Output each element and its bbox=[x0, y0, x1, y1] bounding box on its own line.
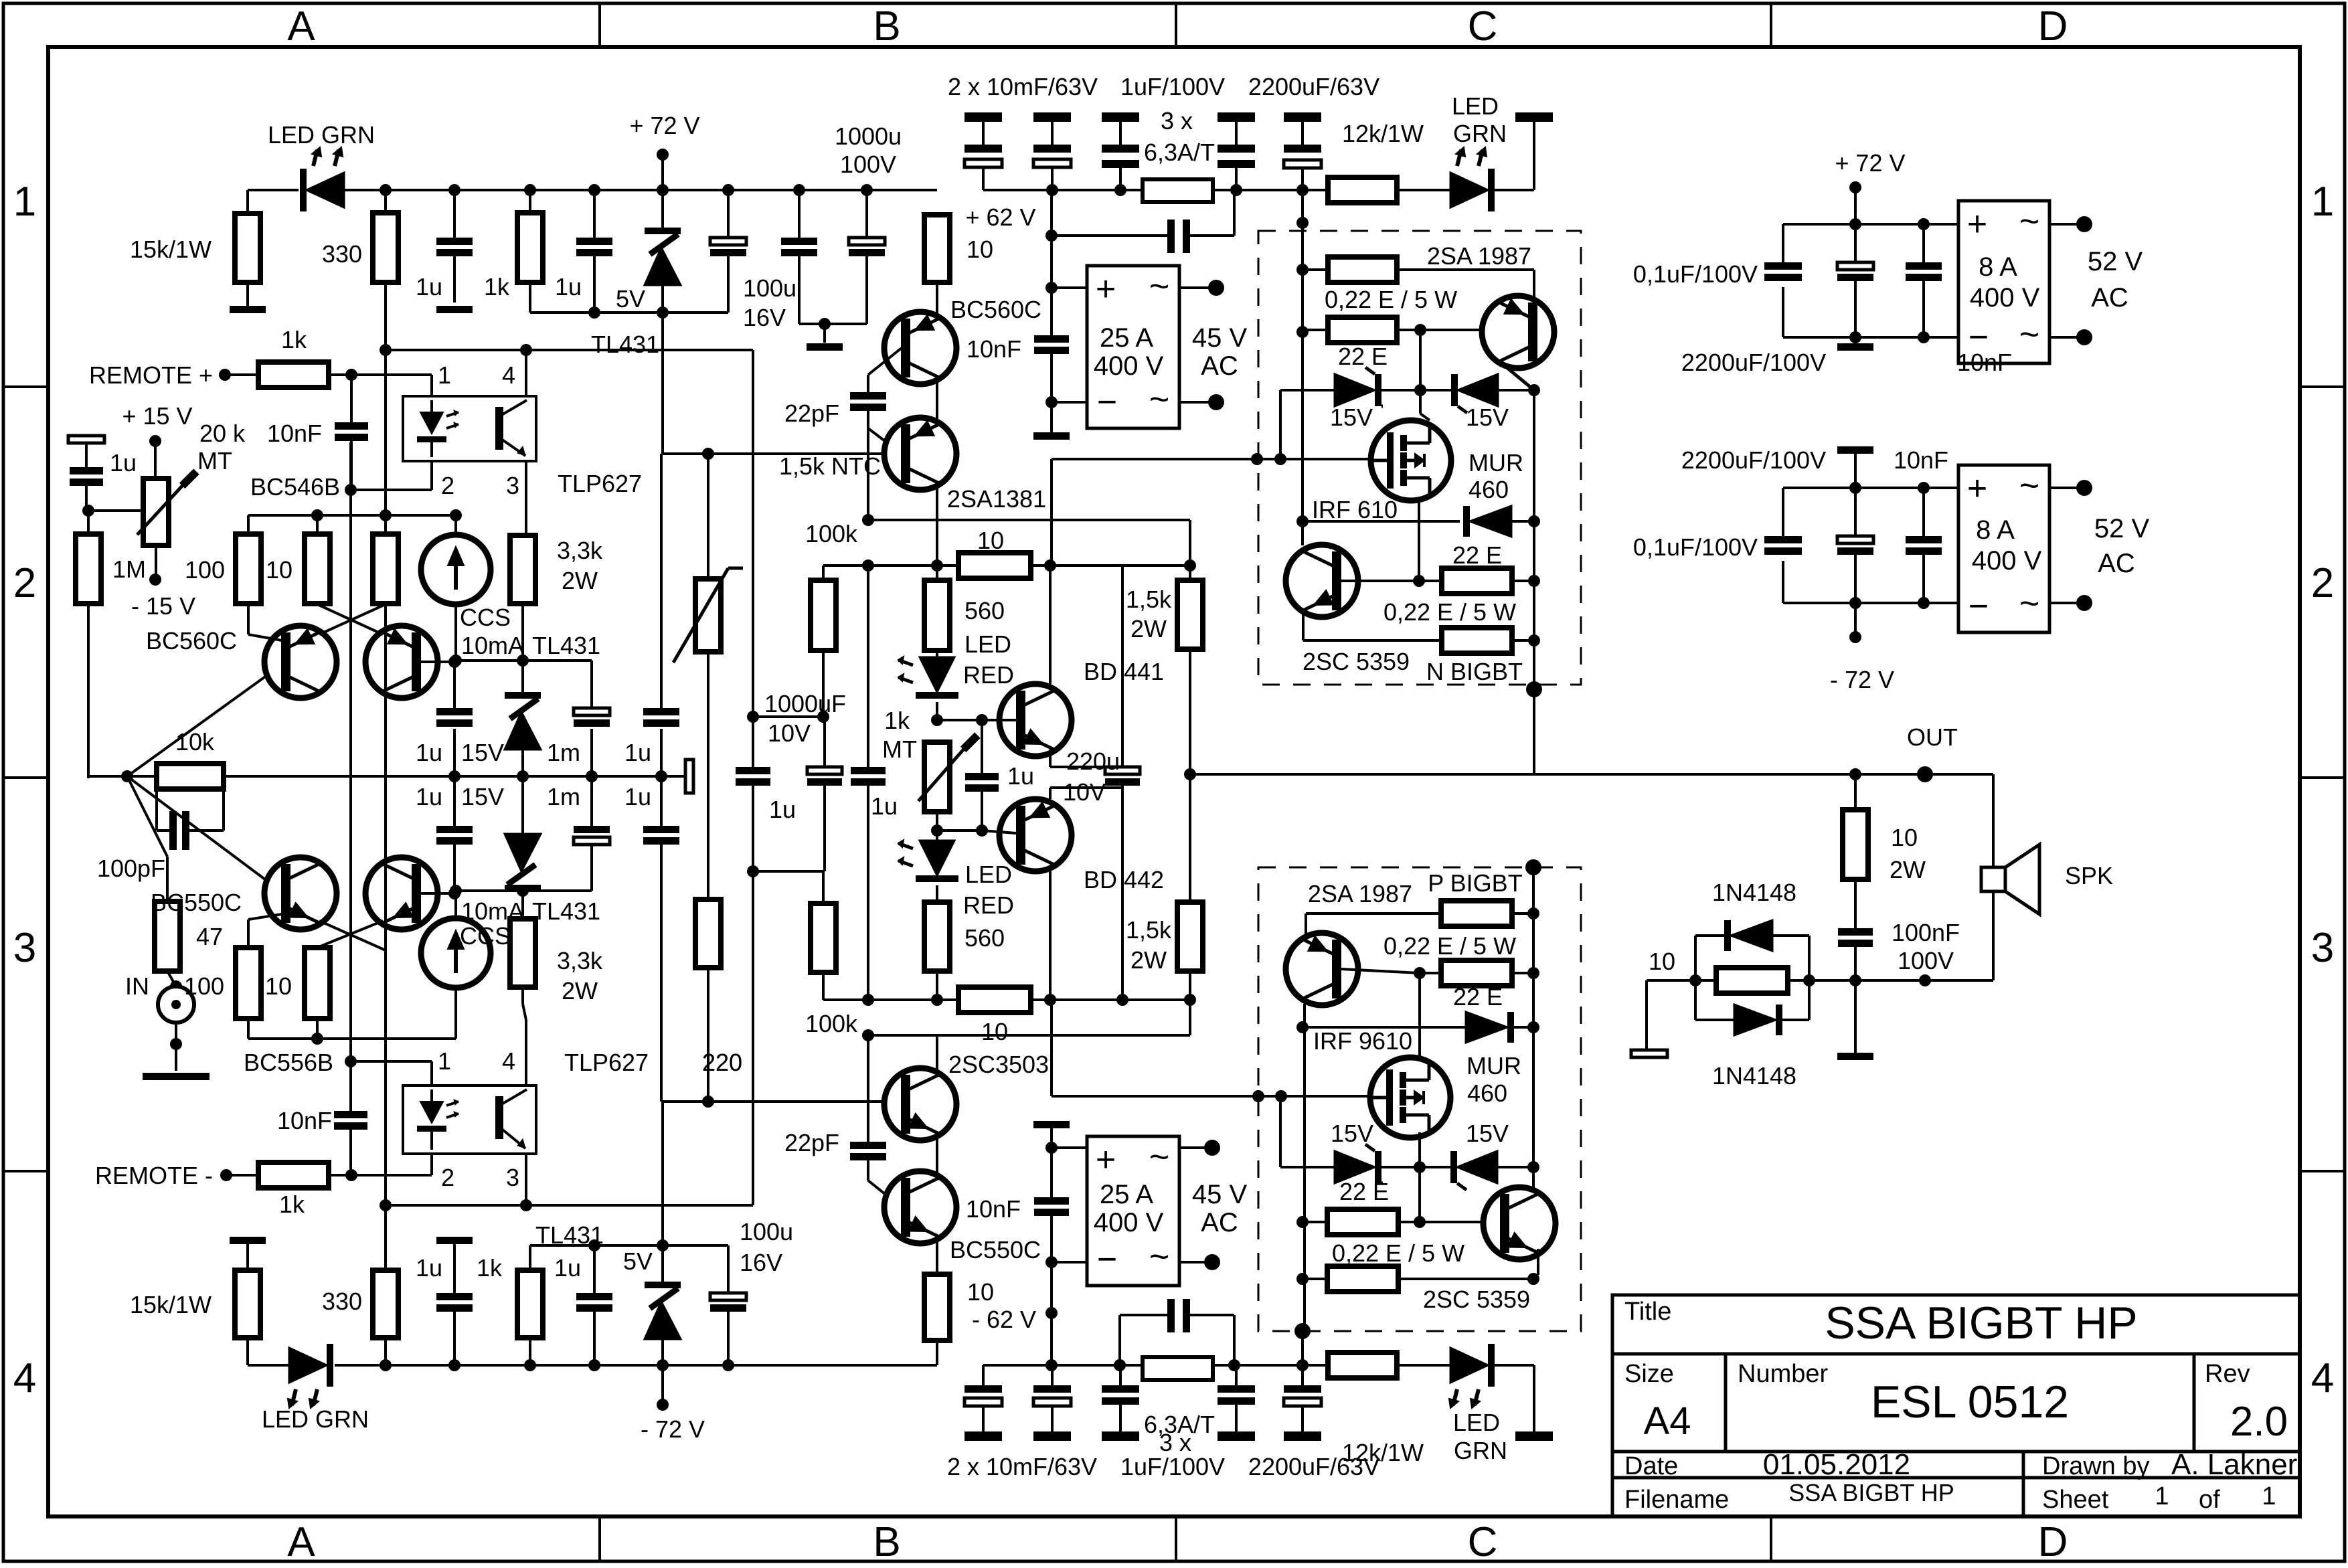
resistor 0,22E top2 bbox=[1303, 329, 1328, 331]
cap 100pF bbox=[155, 776, 158, 831]
resistor 10 out body bbox=[1716, 968, 1788, 993]
svg-text:12k/1W: 12k/1W bbox=[1342, 1439, 1424, 1466]
node -72V row4 bbox=[657, 1399, 669, 1411]
resistor 0,22E P3 bbox=[1296, 1273, 1309, 1285]
cap 10nF plates bbox=[335, 422, 368, 430]
svg-text:1u: 1u bbox=[555, 273, 582, 300]
svg-text:2 x 10mF/63V: 2 x 10mF/63V bbox=[947, 1453, 1097, 1480]
svg-text:GRN: GRN bbox=[1454, 1437, 1507, 1464]
fuse bottom bbox=[1143, 1357, 1213, 1380]
cap 2200uF/63V bottom bbox=[1301, 1365, 1304, 1385]
svg-text:A: A bbox=[287, 3, 315, 50]
wire 330 bottom line bbox=[380, 1199, 392, 1211]
cap 100u 16V bottom bbox=[710, 1293, 746, 1300]
svg-text:15V: 15V bbox=[1330, 404, 1373, 431]
svg-text:~: ~ bbox=[1149, 1138, 1169, 1177]
svg-text:LED: LED bbox=[1453, 1409, 1500, 1436]
CCS circle top bbox=[421, 535, 491, 604]
svg-text:RED: RED bbox=[963, 661, 1014, 689]
svg-text:1N4148: 1N4148 bbox=[1712, 879, 1796, 906]
cap 1u right top bbox=[660, 454, 663, 708]
resistor 15k/1W body bbox=[235, 213, 260, 282]
cap 10nF bottom plates bbox=[1034, 1197, 1069, 1205]
svg-text:400 V: 400 V bbox=[1970, 283, 2040, 313]
svg-text:10: 10 bbox=[977, 527, 1004, 554]
cap 1m polarized bbox=[574, 708, 610, 715]
svg-text:IN: IN bbox=[125, 972, 149, 1000]
cap 22pF plates bottom bbox=[850, 1142, 886, 1149]
svg-text:10: 10 bbox=[265, 972, 292, 1000]
cap 220u/10V bbox=[1121, 565, 1124, 767]
svg-text:15V: 15V bbox=[1466, 1120, 1509, 1147]
cap 1uF bypass under fuse bbox=[1045, 230, 1058, 242]
svg-text:A4: A4 bbox=[1644, 1399, 1691, 1443]
resistor 10 top bbox=[316, 515, 319, 534]
svg-text:100u: 100u bbox=[740, 1218, 793, 1245]
svg-text:16V: 16V bbox=[743, 304, 786, 331]
svg-text:1N4148: 1N4148 bbox=[1712, 1062, 1796, 1090]
zener 15V left N bbox=[1280, 389, 1335, 391]
resistor 100k top bbox=[822, 565, 825, 580]
diode 1N4148 top bbox=[1731, 920, 1772, 951]
svg-text:+ 72 V: + 72 V bbox=[629, 112, 699, 139]
svg-text:- 62 V: - 62 V bbox=[972, 1306, 1036, 1333]
zone divider ticks left bbox=[3, 385, 48, 388]
svg-text:REMOTE -: REMOTE - bbox=[95, 1162, 213, 1189]
wire VAS base bottom bbox=[661, 1100, 901, 1103]
cap 1u plates bbox=[576, 238, 612, 245]
svg-text:~: ~ bbox=[1149, 267, 1169, 306]
svg-text:15V: 15V bbox=[1466, 404, 1509, 431]
svg-text:100: 100 bbox=[184, 972, 224, 1000]
ground bar bridge bbox=[1033, 432, 1070, 440]
transistor 2SC3503 bbox=[884, 1068, 956, 1140]
svg-text:400 V: 400 V bbox=[1094, 351, 1164, 381]
svg-text:47: 47 bbox=[196, 923, 223, 950]
cap 1uF bar b bbox=[1218, 112, 1255, 122]
capacitor 1u second bbox=[593, 190, 596, 238]
wire line777 right bbox=[868, 519, 1190, 521]
resistor 15k/1W bbox=[246, 190, 249, 213]
terminal bar bottom bbox=[1515, 1431, 1553, 1441]
diode 1N4148 bottom bbox=[1695, 1019, 1734, 1021]
svg-text:10nF: 10nF bbox=[967, 335, 1021, 363]
svg-text:SSA BIGBT HP: SSA BIGBT HP bbox=[1825, 1298, 2137, 1348]
svg-text:BC556B: BC556B bbox=[244, 1049, 333, 1076]
ground bar IN bbox=[143, 1073, 209, 1080]
svg-text:10nF: 10nF bbox=[267, 420, 322, 447]
cap 10nF b2 plates bbox=[1906, 536, 1942, 543]
svg-text:C: C bbox=[1468, 1519, 1498, 1565]
svg-text:1uF/100V: 1uF/100V bbox=[1120, 73, 1225, 100]
cap 100nF plates bbox=[1838, 928, 1873, 936]
svg-text:10nF: 10nF bbox=[966, 1195, 1021, 1223]
transistor BD442 bbox=[999, 799, 1072, 871]
svg-text:100nF: 100nF bbox=[1892, 919, 1960, 946]
cap 1uF bar bbox=[1102, 112, 1139, 122]
diode 1N4148 bottom bbox=[1734, 1005, 1776, 1035]
zone divider ticks top bbox=[598, 3, 601, 47]
resistor 12k/1W bottom body bbox=[1328, 1353, 1397, 1378]
node +72V right bbox=[1849, 181, 1861, 193]
svg-text:10: 10 bbox=[266, 556, 292, 584]
wire emitter cross top bbox=[319, 604, 386, 634]
cap 220u 10V bbox=[1105, 767, 1140, 774]
svg-text:~: ~ bbox=[1149, 380, 1169, 419]
svg-text:22 E: 22 E bbox=[1339, 1178, 1389, 1205]
optocoupler TLP627 box bbox=[403, 396, 536, 461]
resistor 10 h body bbox=[958, 553, 1031, 578]
svg-text:16V: 16V bbox=[740, 1249, 782, 1276]
svg-text:Title: Title bbox=[1624, 1298, 1671, 1326]
resistor 330 bbox=[384, 190, 387, 213]
dashed box P BIGBT bbox=[1258, 867, 1581, 1331]
wire line 770 bbox=[248, 514, 456, 517]
pot 1k MT body bbox=[924, 742, 950, 812]
transistor BC550C input pair left bbox=[264, 857, 337, 930]
svg-text:1: 1 bbox=[438, 361, 451, 389]
wire 330 junction line bbox=[380, 344, 392, 356]
svg-text:100pF: 100pF bbox=[97, 855, 165, 882]
svg-text:LED GRN: LED GRN bbox=[262, 1405, 369, 1433]
svg-text:3 x: 3 x bbox=[1161, 107, 1193, 135]
cap 10nF bottom input bbox=[349, 1061, 352, 1111]
svg-text:1u: 1u bbox=[416, 273, 442, 300]
svg-text:~: ~ bbox=[2019, 202, 2039, 241]
svg-text:2: 2 bbox=[13, 560, 36, 606]
svg-text:IRF 9610: IRF 9610 bbox=[1313, 1027, 1412, 1055]
cap 1u mid left bbox=[453, 707, 456, 709]
svg-text:OUT: OUT bbox=[1907, 723, 1958, 751]
svg-text:of: of bbox=[2199, 1486, 2220, 1514]
wire mosfet source down bbox=[1418, 501, 1420, 579]
wire input diagonals bbox=[127, 663, 284, 776]
resistor 0,22E N lower bbox=[1302, 610, 1305, 640]
svg-text:12k/1W: 12k/1W bbox=[1342, 120, 1424, 147]
svg-text:MT: MT bbox=[197, 447, 232, 474]
resistor 10 bottom body bbox=[305, 948, 330, 1019]
resistor 560 top bbox=[936, 565, 938, 580]
wire bottom pair line bbox=[248, 1037, 456, 1040]
transistor BC560C input pair left bbox=[264, 626, 337, 698]
LED GRN right bbox=[1450, 173, 1488, 207]
svg-text:1u: 1u bbox=[554, 1254, 581, 1282]
svg-text:100V: 100V bbox=[840, 151, 896, 178]
svg-text:+: + bbox=[1096, 1140, 1116, 1179]
svg-text:1u: 1u bbox=[416, 1254, 442, 1282]
svg-text:+: + bbox=[1967, 469, 1987, 508]
transistor 2SC5359 N bbox=[1286, 545, 1358, 617]
resistor 0,22E n3 body bbox=[1442, 628, 1512, 653]
caps 1uF/100V bottom bbox=[1119, 1365, 1122, 1385]
resistor 15k bottom body bbox=[235, 1270, 260, 1338]
svg-text:460: 460 bbox=[1469, 476, 1509, 503]
TL431 bottom zener bbox=[645, 1282, 681, 1288]
svg-text:A: A bbox=[287, 1519, 315, 1565]
CCS circle bottom bbox=[421, 918, 491, 988]
LED RED top bbox=[936, 650, 938, 667]
bar bridge bottom bbox=[1050, 1128, 1053, 1148]
bar below 2200uF bbox=[1854, 337, 1857, 343]
zener 15V top bbox=[521, 661, 524, 692]
svg-text:REMOTE +: REMOTE + bbox=[89, 361, 213, 389]
svg-text:10k: 10k bbox=[175, 728, 215, 756]
svg-text:22 E: 22 E bbox=[1338, 343, 1388, 370]
diode MUR460 P bbox=[1303, 1026, 1466, 1029]
svg-text:A. Lakner: A. Lakner bbox=[2171, 1448, 2297, 1481]
svg-text:+ 72 V: + 72 V bbox=[1835, 149, 1905, 177]
svg-text:CCS: CCS bbox=[460, 922, 511, 950]
svg-text:BC546B: BC546B bbox=[250, 473, 340, 501]
svg-text:25 A: 25 A bbox=[1100, 1180, 1153, 1209]
svg-text:1000uF: 1000uF bbox=[764, 690, 846, 717]
ground bar 15k bbox=[230, 306, 266, 313]
cap 1u input plates bbox=[70, 467, 103, 474]
svg-text:−: − bbox=[1968, 318, 1989, 357]
svg-text:LED: LED bbox=[965, 861, 1012, 888]
svg-text:0,22 E / 5 W: 0,22 E / 5 W bbox=[1383, 932, 1516, 960]
bridge 8A 400V bottom bbox=[1958, 465, 2049, 632]
svg-text:15V: 15V bbox=[461, 783, 504, 810]
LED RED top bbox=[920, 657, 954, 692]
LED GRN bottom bbox=[289, 1348, 327, 1383]
wire N-cell drive bbox=[1050, 459, 1053, 565]
base wires pair bbox=[420, 661, 454, 663]
svg-text:1u: 1u bbox=[624, 783, 651, 810]
svg-text:10: 10 bbox=[1891, 824, 1918, 851]
svg-text:22 E: 22 E bbox=[1452, 541, 1502, 569]
svg-text:4: 4 bbox=[502, 361, 515, 389]
cap 1u rail plates bbox=[781, 238, 817, 245]
svg-text:3,3k: 3,3k bbox=[557, 947, 603, 974]
svg-text:TLP627: TLP627 bbox=[558, 470, 642, 497]
svg-text:1u: 1u bbox=[416, 739, 442, 766]
svg-text:10: 10 bbox=[1649, 948, 1675, 975]
zener TL431 5V bbox=[661, 190, 664, 228]
svg-text:Size: Size bbox=[1624, 1360, 1674, 1388]
svg-text:2: 2 bbox=[441, 1164, 454, 1191]
svg-text:TLP627: TLP627 bbox=[564, 1049, 649, 1076]
svg-text:TL431: TL431 bbox=[532, 632, 600, 659]
svg-text:+ 15 V: + 15 V bbox=[122, 402, 192, 430]
svg-text:3,3k: 3,3k bbox=[557, 537, 603, 564]
cap 10nF right plates bbox=[1906, 262, 1942, 270]
svg-text:~: ~ bbox=[1149, 1237, 1169, 1276]
svg-text:+: + bbox=[1967, 205, 1987, 244]
cap 1u column mid bbox=[867, 565, 869, 767]
bridge 25A 400V bottom bbox=[1087, 1136, 1179, 1286]
cap 1u bottom1 bbox=[436, 1237, 473, 1244]
svg-text:Rev: Rev bbox=[2205, 1360, 2250, 1388]
svg-text:2W: 2W bbox=[1130, 946, 1167, 974]
wire line A bbox=[823, 564, 958, 567]
svg-text:1: 1 bbox=[2155, 1482, 2169, 1510]
cap 1uF bypass bottom bbox=[1114, 1359, 1126, 1371]
resistor 1k body bbox=[517, 213, 543, 282]
wire rail row4 bbox=[248, 1364, 299, 1367]
svg-text:Sheet: Sheet bbox=[2042, 1486, 2109, 1514]
resistor 0,22E top1 bbox=[1303, 268, 1328, 271]
svg-text:8 A: 8 A bbox=[1979, 252, 2017, 282]
svg-text:BC550C: BC550C bbox=[950, 1236, 1041, 1264]
svg-text:+ 62 V: + 62 V bbox=[965, 203, 1035, 231]
resistor 12k/1W body bbox=[1328, 177, 1397, 203]
svg-text:45 V: 45 V bbox=[1192, 1180, 1248, 1209]
svg-text:1M: 1M bbox=[112, 555, 146, 583]
resistor 560 body bbox=[924, 580, 950, 650]
svg-text:RED: RED bbox=[963, 891, 1014, 919]
bridge terminals top bbox=[1179, 286, 1216, 289]
resistor 330 bottom body bbox=[373, 1270, 398, 1338]
svg-text:Date: Date bbox=[1624, 1452, 1678, 1480]
transistor 2SC5359 P bbox=[1483, 1187, 1556, 1259]
cap 1u bottom plates bbox=[436, 1293, 473, 1300]
svg-text:10: 10 bbox=[967, 1278, 994, 1306]
svg-text:45 V: 45 V bbox=[1192, 323, 1248, 353]
wire line B bbox=[823, 998, 958, 1001]
svg-text:2SC3503: 2SC3503 bbox=[948, 1051, 1049, 1078]
cap 2200uF/100V b2 bbox=[1854, 488, 1857, 536]
resistor 10 2W body bbox=[1843, 810, 1868, 879]
svg-text:AC: AC bbox=[1201, 1208, 1238, 1237]
svg-text:20 k: 20 k bbox=[199, 420, 246, 447]
svg-text:LED: LED bbox=[965, 630, 1011, 658]
svg-text:- 72 V: - 72 V bbox=[641, 1415, 705, 1443]
svg-text:BC550C: BC550C bbox=[151, 889, 242, 916]
svg-text:10: 10 bbox=[981, 1018, 1008, 1045]
resistor 1k vertical bbox=[529, 190, 531, 213]
svg-text:2200uF/63V: 2200uF/63V bbox=[1248, 73, 1379, 100]
cap 1u rail1 bbox=[793, 184, 805, 196]
wire 1N4148 ground bbox=[1647, 979, 1695, 982]
transistor 2SA1987 P bbox=[1286, 933, 1358, 1005]
bridge 25A 400V bbox=[1087, 266, 1179, 428]
zener 15V top symbol bbox=[505, 692, 541, 699]
resistor 3,3k 2W top bbox=[523, 533, 526, 535]
cap 1u pot plates bbox=[965, 773, 999, 780]
capacitor 1u first bbox=[453, 190, 456, 238]
svg-text:1,5k NTC: 1,5k NTC bbox=[779, 452, 881, 480]
svg-text:2SC 5359: 2SC 5359 bbox=[1303, 648, 1410, 675]
cap 10nF right bbox=[1922, 224, 1925, 262]
svg-text:1u: 1u bbox=[871, 792, 898, 820]
svg-text:AC: AC bbox=[2091, 283, 2128, 313]
transistor input pair right bbox=[365, 626, 438, 698]
wire VAS base top bbox=[661, 452, 901, 455]
svg-text:100u: 100u bbox=[743, 274, 796, 302]
NTC body bbox=[695, 579, 721, 652]
svg-text:−: − bbox=[1968, 587, 1989, 626]
wire 1000u ground bbox=[799, 323, 867, 325]
wire input mid line bbox=[88, 775, 685, 778]
resistor 1k REMOTE+ bbox=[258, 362, 329, 387]
node +72V bbox=[657, 149, 669, 161]
resistor 100k bottom body bbox=[811, 903, 836, 972]
svg-text:1u: 1u bbox=[416, 783, 442, 810]
svg-text:IRF 610: IRF 610 bbox=[1312, 496, 1398, 523]
wire emitter column bbox=[1533, 390, 1535, 774]
svg-text:10mA: 10mA bbox=[461, 632, 524, 659]
resistor 22E N body bbox=[1442, 568, 1512, 594]
svg-text:4: 4 bbox=[2311, 1355, 2334, 1401]
svg-text:LED: LED bbox=[1452, 92, 1499, 120]
svg-text:1k: 1k bbox=[281, 326, 307, 353]
wire col 576 down bbox=[384, 351, 387, 534]
fuse 6,3A/T bbox=[1143, 179, 1213, 202]
svg-text:3: 3 bbox=[13, 925, 36, 971]
svg-text:Number: Number bbox=[1738, 1360, 1828, 1388]
cap 0,1uF b2 plates bbox=[1764, 536, 1802, 543]
svg-text:15V: 15V bbox=[1331, 1120, 1373, 1147]
svg-text:560: 560 bbox=[965, 924, 1005, 952]
svg-text:BC560C: BC560C bbox=[950, 296, 1041, 323]
ground bar 1u bbox=[436, 306, 473, 313]
zone divider ticks right bbox=[2300, 385, 2345, 388]
wire resistor tops bbox=[248, 514, 317, 517]
svg-text:220: 220 bbox=[702, 1049, 742, 1076]
resistor 47 bbox=[166, 857, 169, 901]
resistor 0,22E n1 body bbox=[1328, 257, 1397, 282]
title block frame bbox=[1612, 1295, 2300, 1516]
cap 1u bottom2 plates bbox=[576, 1293, 612, 1300]
wire P cell bottom bbox=[1294, 1323, 1311, 1339]
cap 1u plates bbox=[436, 238, 473, 245]
cap 1u hollow bar bbox=[68, 436, 104, 443]
svg-text:TL431: TL431 bbox=[591, 331, 659, 358]
svg-text:2SA 1987: 2SA 1987 bbox=[1308, 880, 1412, 907]
svg-text:1,5k: 1,5k bbox=[1126, 916, 1172, 944]
LED GRN bottom right bbox=[1450, 1348, 1488, 1383]
svg-text:MUR: MUR bbox=[1469, 449, 1523, 476]
resistor 0,22E p1 body bbox=[1441, 901, 1512, 926]
thermistor 1,5k NTC bbox=[707, 454, 709, 579]
wire opto pin4 up bbox=[525, 350, 527, 396]
zener 15V left N bbox=[1335, 374, 1375, 406]
svg-text:1m: 1m bbox=[547, 783, 580, 810]
cap 1u plates col bbox=[851, 767, 886, 774]
wire bridge1 rails bbox=[1783, 223, 1958, 226]
svg-text:22 E: 22 E bbox=[1453, 983, 1503, 1011]
wire line 1547 bbox=[868, 1034, 1190, 1037]
svg-text:6,3A/T: 6,3A/T bbox=[1144, 139, 1215, 166]
wire zobel bottom line bbox=[1647, 979, 1925, 982]
resistor 0,22E n2 body bbox=[1328, 317, 1397, 343]
caps 2x10mF/63V bottom bbox=[982, 1365, 985, 1385]
wire opto2 pins bbox=[351, 1060, 432, 1063]
cap 22pF plates bbox=[850, 392, 886, 400]
svg-text:2.0: 2.0 bbox=[2230, 1399, 2288, 1445]
transistor 2SA1987 N bbox=[1482, 296, 1554, 368]
svg-text:3: 3 bbox=[2311, 925, 2334, 971]
svg-text:1k: 1k bbox=[279, 1191, 305, 1218]
svg-text:10V: 10V bbox=[768, 719, 811, 747]
svg-text:5V: 5V bbox=[616, 285, 645, 313]
terminal pin mid bbox=[685, 760, 693, 793]
wire 2SA1987P collector bbox=[1303, 1004, 1306, 1331]
svg-text:52 V: 52 V bbox=[2094, 514, 2150, 543]
svg-text:LED GRN: LED GRN bbox=[268, 121, 375, 149]
resistor 0,22E p3 body bbox=[1327, 1266, 1398, 1292]
svg-text:- 72 V: - 72 V bbox=[1830, 666, 1894, 693]
cap 1u plates right bbox=[643, 708, 679, 715]
svg-text:~: ~ bbox=[2019, 584, 2039, 623]
svg-text:400 V: 400 V bbox=[1094, 1208, 1164, 1237]
speaker SPK bbox=[1981, 867, 2005, 891]
svg-text:25 A: 25 A bbox=[1100, 323, 1153, 353]
resistor 10 body bbox=[305, 534, 330, 604]
resistor 10 B body bbox=[924, 215, 950, 282]
cap 10nF B plates bbox=[1034, 335, 1069, 343]
